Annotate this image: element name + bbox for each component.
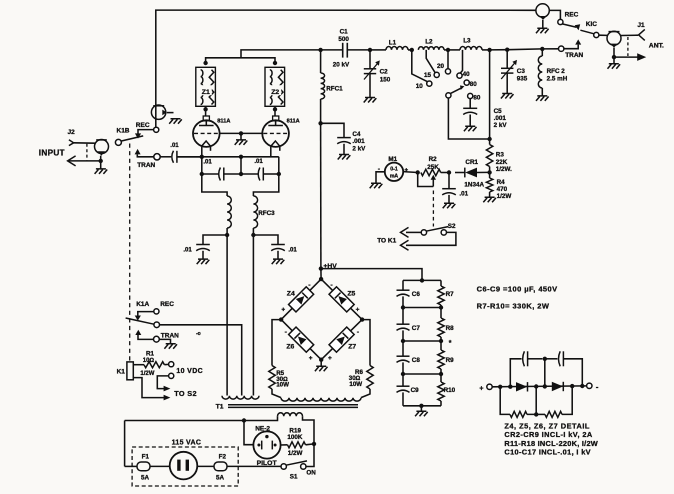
dashed coax screen J1	[627, 37, 629, 56]
svg-text:TRAN: TRAN	[161, 332, 179, 339]
ground at C2	[364, 98, 377, 103]
wire S2 left to arrow	[406, 231, 421, 233]
contact K1B common	[115, 139, 121, 145]
wire 15m tap lead	[426, 50, 435, 73]
contact 80m	[464, 80, 469, 85]
contact K1B REC	[154, 127, 159, 132]
svg-text:L2: L2	[425, 38, 433, 45]
wire R6 to T1 HV winding	[361, 389, 370, 398]
svg-text:.001: .001	[352, 138, 365, 145]
wire K1A TRAN to ground	[159, 339, 170, 343]
svg-text:J2: J2	[68, 129, 76, 136]
wire C3 to ground	[506, 73, 508, 93]
contact 40m	[457, 73, 462, 78]
capacitor .01 filament left	[219, 168, 221, 181]
svg-text:C1: C1	[340, 29, 349, 36]
svg-text:+: +	[281, 307, 285, 314]
node filter top	[420, 278, 424, 282]
wire detail top rail right	[563, 359, 582, 386]
tube V2 filament	[271, 141, 280, 146]
inductor RFC3 choke b	[253, 196, 257, 228]
rectifier Z4 (tip toward top node)	[289, 287, 314, 312]
node cathode rail left	[200, 155, 204, 159]
svg-text:80: 80	[470, 81, 478, 88]
relay coil K1	[127, 362, 133, 380]
resistor R4	[486, 178, 492, 192]
arrowhead wiper	[460, 85, 464, 90]
wire C2 stem	[369, 50, 371, 69]
wire 20m tap lead	[447, 50, 449, 69]
node tie2 right	[439, 339, 443, 343]
node C3 tap	[505, 48, 509, 52]
wire bypass to ground	[448, 195, 450, 203]
capacitor C2 variable	[364, 68, 376, 70]
wire res rail segment 3	[440, 337, 442, 350]
label Z2	[269, 85, 281, 95]
svg-text:+: +	[404, 167, 408, 174]
wire detail bottom rail right	[536, 413, 545, 415]
wire INPUT arrow line	[69, 160, 101, 162]
wire R3 to junction	[489, 167, 491, 173]
ground at receiver jack	[169, 119, 182, 124]
wire res rail segment 5	[440, 401, 442, 406]
svg-text:TO S2: TO S2	[174, 389, 197, 398]
wire R19 to junction	[306, 443, 315, 446]
ground at J1	[608, 64, 621, 69]
svg-text:RFC3: RFC3	[258, 210, 275, 217]
wire cap rail segment 2	[402, 296, 404, 324]
connector J1 coax body	[607, 31, 621, 45]
wire K1B TRAN contact	[137, 154, 153, 156]
node bypass rail right	[277, 172, 281, 176]
wire filter tie 2	[403, 340, 441, 342]
wire cap rail segment 5	[402, 392, 404, 405]
wire filter top bus	[403, 279, 441, 281]
wire ANT arrow line	[614, 56, 638, 58]
jack J2 chevron	[69, 140, 74, 146]
tube V2 plate	[275, 121, 277, 126]
node choke a bypass tap	[225, 233, 229, 237]
contact 15m	[434, 72, 439, 77]
capacitor C5	[463, 107, 477, 109]
wire cap rail segment 4	[402, 362, 404, 386]
wire to right .01 bypass	[253, 235, 278, 245]
svg-text:40: 40	[463, 71, 471, 78]
svg-text:C9: C9	[411, 387, 420, 394]
svg-text:2 kV: 2 kV	[494, 122, 508, 129]
svg-text:PILOT: PILOT	[257, 460, 278, 467]
wire choke b to T1	[252, 228, 254, 396]
node detail top mid	[543, 357, 547, 361]
svg-text:.01: .01	[203, 159, 212, 165]
svg-text:RFC1: RFC1	[326, 85, 343, 92]
wire detail top rail left	[510, 359, 521, 387]
arrowhead K1B TRAN throw	[135, 149, 141, 155]
suppressor Z1 box	[196, 67, 216, 106]
plate cap V2	[273, 116, 279, 121]
contact K1C TRAN	[559, 46, 564, 51]
label Z1	[200, 85, 212, 95]
wire detector leg down	[489, 139, 491, 145]
wire filter bottom bus	[403, 405, 441, 407]
svg-text:R3: R3	[496, 152, 505, 159]
pot R2 wiper arrow	[432, 179, 434, 186]
svg-text:80: 80	[473, 95, 481, 102]
wire F1 to plug	[150, 465, 170, 467]
node R2 left	[416, 170, 420, 174]
svg-text:*: *	[449, 340, 452, 347]
tube V1 811A envelope	[193, 120, 220, 147]
arrowhead K1C REC throw	[575, 24, 581, 30]
wire 40m tap lead	[460, 50, 462, 73]
lamp NE-2 electrodes	[261, 441, 263, 450]
svg-text:Z7: Z7	[348, 344, 356, 351]
svg-text:22K: 22K	[496, 159, 508, 166]
plate cap V1	[203, 116, 209, 121]
node choke b bypass tap	[251, 233, 255, 237]
svg-text:C6-C9 =100 µF, 450V: C6-C9 =100 µF, 450V	[477, 284, 558, 293]
wire tank output down to detector	[489, 50, 491, 139]
svg-text:C8: C8	[412, 357, 421, 364]
wire through J1 to chevron	[621, 34, 638, 36]
terminal detail + input	[487, 384, 492, 389]
svg-text:20 kV: 20 kV	[333, 62, 350, 69]
contact wiper	[446, 93, 451, 98]
switch arm K1B	[121, 136, 143, 141]
switch S1 arm	[286, 461, 307, 465]
wire bridge edge Z7	[321, 320, 362, 360]
switch S2 arm	[426, 227, 448, 232]
inductor RFC3 choke a	[227, 196, 231, 228]
wire C5 to ground	[469, 115, 471, 127]
tube V2 grid (dashed)	[263, 132, 288, 134]
contact K1B TRAN	[154, 154, 160, 160]
svg-text:T1: T1	[216, 404, 224, 411]
svg-text:R4: R4	[497, 179, 506, 186]
svg-text:.01: .01	[254, 159, 263, 165]
tube V2 filament leads	[270, 147, 272, 157]
ground at filter	[415, 411, 428, 416]
wire plate line to C1	[321, 49, 343, 51]
node bypass rail left	[200, 172, 204, 176]
wire Z1 to plate cap	[205, 106, 207, 116]
svg-text:R7-R10= 330K, 2W: R7-R10= 330K, 2W	[477, 302, 550, 311]
wire detail top rail mid2	[544, 359, 546, 387]
svg-text:K1B: K1B	[117, 127, 130, 134]
node bridge right	[360, 317, 364, 321]
svg-text:10W: 10W	[349, 381, 362, 388]
wire cathode rail drop center	[240, 157, 242, 174]
wire to left .01 bypass	[203, 235, 227, 245]
svg-text:0-1: 0-1	[390, 166, 398, 172]
svg-text:R9: R9	[446, 357, 455, 364]
ground at C3	[501, 94, 514, 99]
wire K1C common to J1	[599, 34, 607, 36]
wire S2 right return	[406, 232, 456, 245]
resistor R1	[144, 362, 164, 368]
rectifier Z6 (tip toward left node)	[289, 327, 314, 352]
node RFC2 top	[540, 47, 544, 51]
svg-text:M1: M1	[388, 156, 397, 163]
wire C2 node to L1	[370, 49, 386, 51]
wire J2 shield to ground	[100, 156, 102, 169]
svg-text:Z2: Z2	[271, 89, 279, 96]
wire padder contact to C5	[469, 99, 471, 109]
svg-text:10: 10	[416, 83, 424, 90]
capacitor C10 (detail)	[523, 351, 525, 366]
fuse F2	[214, 462, 227, 471]
svg-text:.001: .001	[494, 115, 507, 122]
wire J1 ground stem	[613, 57, 615, 63]
wire res rail segment 4	[440, 369, 442, 382]
wire AC top run	[125, 420, 244, 422]
svg-text:mA: mA	[390, 173, 399, 179]
contact S2 left	[421, 230, 426, 235]
node tie3 right	[439, 372, 443, 376]
node C4 tap	[318, 121, 322, 125]
wire cathode rail drop right	[278, 157, 280, 174]
wire L3 to output node	[482, 49, 490, 51]
svg-text:S2: S2	[448, 223, 456, 230]
suppressor Z1 resistor	[209, 70, 214, 105]
svg-text:R8: R8	[446, 325, 455, 332]
tube V1 plate	[205, 121, 207, 126]
svg-text:.01: .01	[288, 247, 297, 253]
svg-text:NE-2: NE-2	[255, 426, 270, 433]
svg-text:CR1: CR1	[465, 159, 478, 166]
svg-text:C6: C6	[412, 291, 421, 298]
ground at receive jack	[536, 28, 549, 33]
svg-text:C10-C17 INCL-.01, I kV: C10-C17 INCL-.01, I kV	[504, 447, 591, 456]
wire terminal to TO S2 arrow	[157, 376, 168, 389]
contact 10m	[427, 81, 432, 86]
contact K1A TRAN	[154, 336, 160, 342]
node detail e	[570, 384, 574, 388]
node tie1 right	[439, 305, 443, 309]
node detail b	[508, 385, 512, 389]
wire Z2 to plate cap	[274, 106, 276, 116]
rectifier Z5 (tip toward top node)	[329, 287, 354, 312]
svg-text:811A: 811A	[287, 119, 300, 125]
svg-text:KIC: KIC	[586, 21, 598, 28]
wire bridge left to R5	[272, 320, 281, 366]
wire right filament lead to RFC3b	[253, 174, 278, 196]
svg-text:ON: ON	[306, 469, 316, 476]
wire bridge edge Z5	[321, 279, 362, 320]
wire RFC1 to C4 node	[320, 99, 322, 123]
terminal 10VDC return	[169, 373, 174, 378]
svg-text:K1A: K1A	[136, 301, 149, 308]
ground at J2	[95, 169, 108, 174]
svg-text:R10: R10	[444, 387, 456, 394]
wire filter bottom to ground	[420, 406, 422, 411]
wire +HV riser	[320, 123, 322, 268]
capacitor C8	[397, 355, 410, 357]
svg-text:.01: .01	[459, 191, 468, 198]
contact S1 right	[301, 464, 306, 469]
node tie1 left	[401, 305, 405, 309]
svg-text:+: +	[309, 355, 313, 362]
diode CR2	[516, 382, 527, 391]
wire cap rail segment 1	[402, 280, 404, 290]
capacitor C7	[397, 323, 410, 325]
wire filter tie 1	[403, 307, 441, 309]
ground at RFC2	[536, 96, 549, 101]
resistor R9	[438, 350, 444, 369]
arrowhead TO S2 upper	[164, 386, 171, 392]
svg-text:115 VAC: 115 VAC	[172, 439, 202, 446]
inductor RFC1	[321, 73, 325, 99]
node Z2 bottom	[273, 107, 277, 111]
wire RFC2 node to TRAN contact	[542, 48, 558, 50]
wire R4 to ground	[489, 192, 491, 197]
arrowhead INPUT (open)	[68, 156, 76, 166]
node bridge bottom	[319, 358, 323, 362]
capacitor C1	[342, 43, 344, 58]
svg-text:25K: 25K	[427, 164, 439, 171]
wire detail bottom mid	[527, 387, 536, 415]
ground at bridge	[315, 366, 328, 371]
capacitor C4	[337, 137, 351, 139]
node detail a	[498, 385, 502, 389]
inductor L3	[460, 47, 482, 50]
wire S1 to R19 node	[306, 444, 314, 467]
svg-text:20: 20	[437, 63, 445, 70]
arrowhead TO K1 lower (open)	[401, 240, 409, 250]
wire C4 branch	[321, 123, 344, 137]
svg-text:Z6: Z6	[286, 344, 294, 351]
svg-text:C3: C3	[517, 68, 526, 75]
wire L2-L3 segment	[448, 49, 460, 51]
node detector tap	[487, 137, 491, 141]
node NE-2 tap	[242, 418, 246, 422]
wire detail bottom rail left	[500, 387, 510, 415]
wire bridge right to R6	[362, 320, 370, 366]
svg-text:10 VDC: 10 VDC	[176, 368, 203, 375]
resistor R3	[486, 145, 492, 167]
jack J1 chevron	[639, 29, 645, 40]
ground at right heater bypass	[272, 259, 285, 264]
arrowhead K1A REC throw	[135, 316, 141, 321]
resistor R19	[288, 442, 306, 448]
switch arm K1C	[580, 30, 594, 34]
arrowhead ANT	[637, 53, 646, 61]
terminal detail - output	[587, 383, 592, 388]
svg-text:-: -	[596, 382, 599, 391]
svg-text:Z5: Z5	[347, 290, 355, 297]
svg-text:15: 15	[424, 72, 432, 79]
wire AC bottom run to F1	[125, 465, 137, 467]
transformer T1 filament winding	[222, 396, 259, 399]
ground at K1A TRAN	[164, 344, 177, 349]
wire detail main line	[492, 385, 586, 388]
svg-text:F1: F1	[142, 453, 150, 460]
wire bridge edge Z4	[281, 279, 321, 320]
capacitor C9	[397, 385, 410, 387]
wire C3 stem	[506, 50, 508, 69]
terminal 10VDC +	[169, 362, 174, 367]
node bypass rail center	[239, 172, 243, 176]
wire R5 to T1 HV winding	[272, 389, 281, 398]
svg-text:R7: R7	[446, 291, 455, 298]
svg-text:F2: F2	[219, 453, 227, 460]
node tank output	[487, 48, 491, 52]
inductor L2	[418, 47, 444, 50]
svg-text:J1: J1	[637, 22, 645, 29]
arrowhead TO K1 upper (open)	[401, 227, 409, 237]
node cathode rail center	[239, 155, 243, 159]
svg-text:C7: C7	[412, 325, 421, 332]
svg-text:ANT.: ANT.	[649, 43, 664, 50]
svg-text:.01: .01	[183, 247, 192, 253]
contact 20m	[445, 69, 450, 74]
ground at R4	[483, 197, 496, 202]
wire rec jack ground stem	[542, 20, 544, 28]
label PILOT ... (lamp leads)	[281, 444, 288, 446]
wire R2 to CR1 junction	[441, 172, 449, 174]
wire C1 to C2 node	[347, 49, 370, 51]
capacitor .01 heater bypass left	[196, 244, 210, 246]
wire grid to ground	[240, 133, 242, 139]
wire J1 shield drop	[613, 48, 615, 58]
wire junction to bypass cap	[448, 173, 450, 189]
svg-text:.01: .01	[170, 143, 179, 149]
svg-text:500: 500	[338, 36, 349, 43]
node R19-S1-primary junction	[312, 442, 316, 446]
wire L1 to 10m tap node	[408, 49, 412, 51]
svg-text:2 kV: 2 kV	[352, 145, 366, 152]
inductor L1	[386, 47, 408, 50]
capacitor .01 input coupling	[172, 151, 174, 163]
node bridge left	[279, 317, 283, 321]
svg-text:+: +	[328, 355, 332, 362]
wire F2 to S1	[227, 465, 281, 467]
svg-text:1/2W: 1/2W	[497, 193, 512, 200]
svg-text:REC: REC	[565, 12, 579, 19]
wire meter to R2	[403, 171, 418, 174]
wire tank output to C3	[490, 49, 508, 51]
fuse F1	[137, 462, 150, 471]
svg-text:S1: S1	[290, 474, 298, 481]
wire RFC2 to ground	[541, 88, 543, 96]
node 20m tap	[446, 48, 450, 52]
node CR1 anode / C-filter junction	[447, 170, 451, 174]
wire K1B REC contact to arm arrow	[138, 130, 154, 134]
arrowhead K1B REC throw	[135, 133, 141, 138]
wire primary right lead	[303, 416, 315, 444]
arrowhead K1C TRAN throw	[575, 39, 581, 44]
contact K1A common	[154, 322, 160, 328]
ground at C4	[338, 155, 351, 160]
wire res rail segment 1	[440, 280, 442, 286]
suppressor Z1 coil	[201, 70, 203, 105]
wire plate tie bus (Z1/Z2 tops)	[206, 58, 275, 64]
suppressor Z2 coil	[270, 70, 272, 105]
contact S1 left	[281, 464, 286, 469]
wire K1A REC contact lead	[138, 312, 154, 316]
switch S3 wiper arm	[450, 88, 462, 94]
node filter bottom	[419, 404, 423, 408]
wire plug to F2	[197, 465, 214, 467]
wire +HV to filter	[321, 269, 422, 281]
wire grid tie between tubes	[220, 132, 263, 134]
svg-text:-o: -o	[196, 331, 201, 337]
svg-text:K1: K1	[117, 368, 126, 375]
wire C4 to ground	[343, 144, 345, 154]
wire K1 coil to R1	[133, 364, 144, 366]
node C2 tap	[368, 48, 372, 52]
resistor R5	[269, 366, 275, 390]
